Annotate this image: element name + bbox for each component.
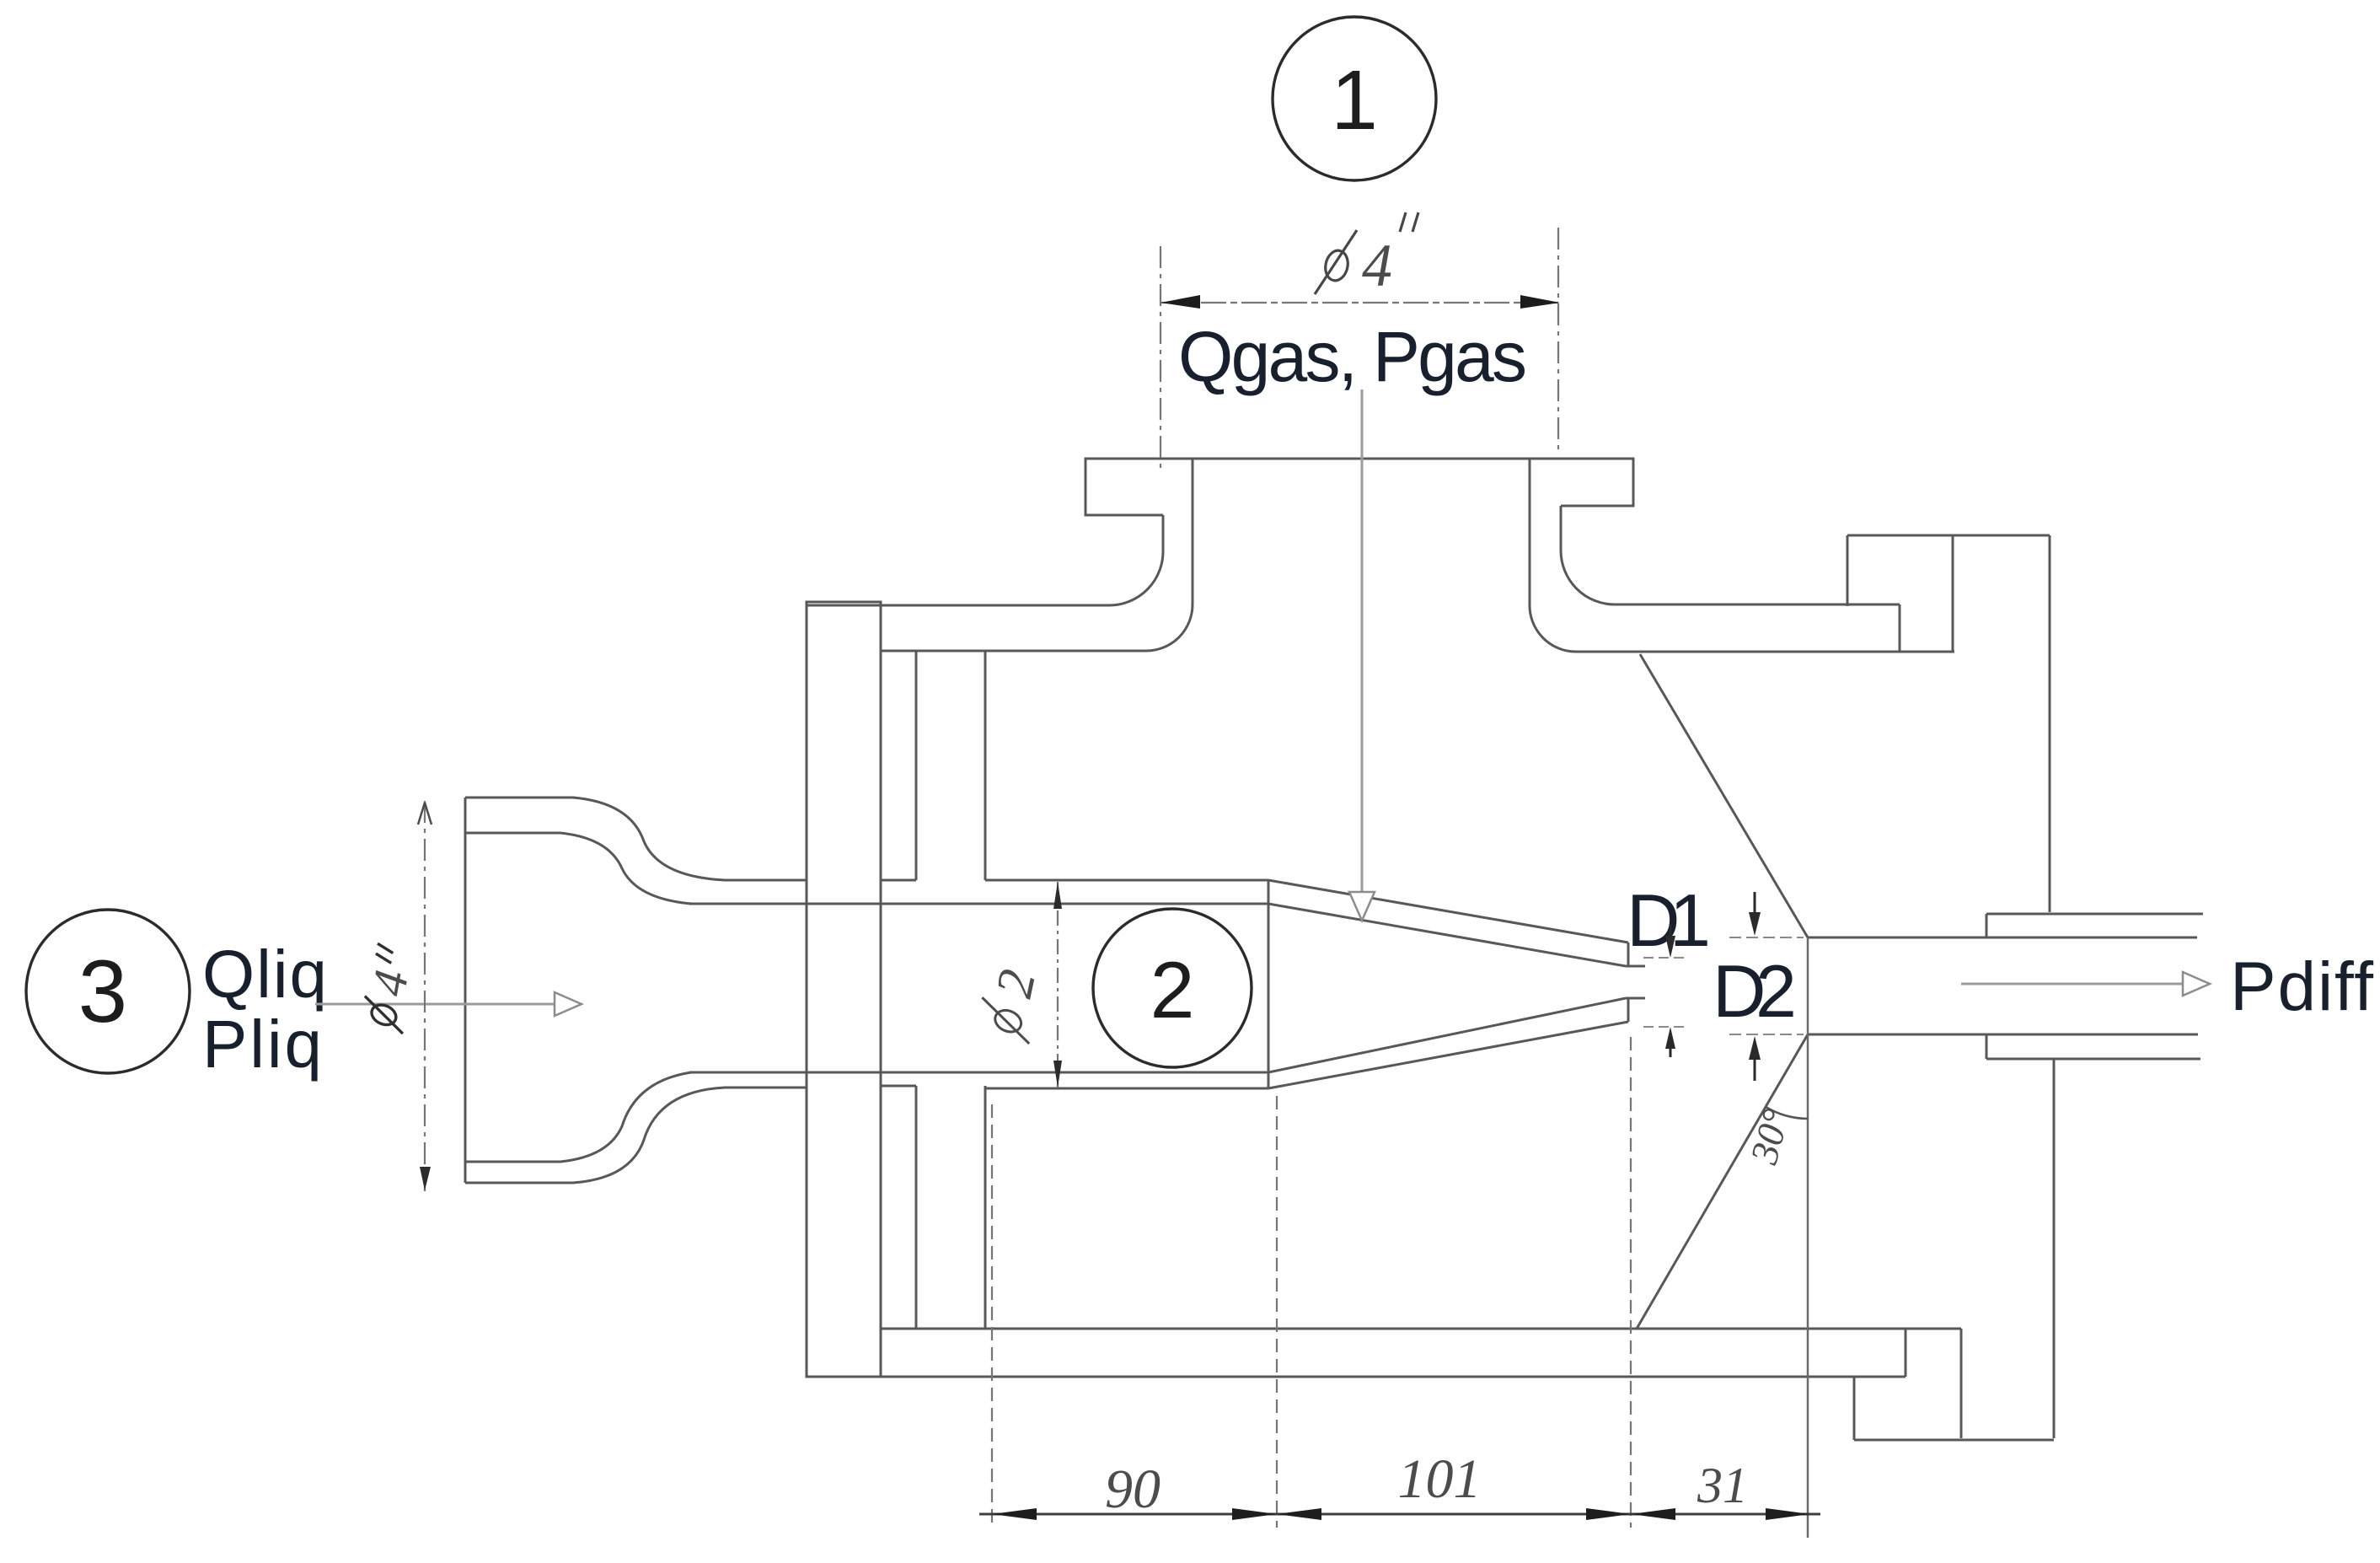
converging wall lower diagonal bbox=[1637, 1034, 1808, 1329]
gas flow arrowhead bbox=[1349, 892, 1375, 921]
bottom dimension extension line at 1515 bbox=[1276, 1096, 1278, 1528]
svg-text:101: 101 bbox=[1398, 1448, 1482, 1510]
nozzle bore bottom line bbox=[689, 1072, 1268, 1074]
gas pipe inner wall left with fillet bbox=[1146, 459, 1193, 651]
nozzle cone outer top bbox=[1268, 880, 1628, 943]
dim phi4 top left arrowhead bbox=[1161, 295, 1200, 309]
nozzle cone root face bbox=[1268, 880, 1270, 1088]
throat bore bottom line bbox=[1808, 1034, 2198, 1036]
dim D2 upper arrow bbox=[1754, 892, 1756, 927]
bottom flange ring left face below shell bbox=[1853, 1377, 1856, 1440]
bottom flange ring notch face bbox=[1960, 1329, 1963, 1438]
svg-text:Qliq: Qliq bbox=[202, 937, 327, 1012]
svg-text:Qgas, Pgas: Qgas, Pgas bbox=[1178, 317, 1527, 396]
dim phi4 left extension line bbox=[424, 801, 426, 1191]
body top wall outer line right bbox=[1615, 604, 1900, 606]
right flange ring left face above shell bbox=[1847, 535, 1849, 606]
dim phi4 top label bbox=[1315, 212, 1418, 294]
nozzle cone outer bottom bbox=[1268, 1022, 1628, 1088]
svg-text:90: 90 bbox=[1105, 1458, 1161, 1520]
reducer left face bbox=[464, 798, 467, 1183]
dim D2 ticks bbox=[1729, 937, 1804, 1034]
Pdiff arrow line bbox=[1961, 983, 2184, 986]
callout circle 2 bbox=[1093, 909, 1252, 1067]
nozzle tip face lower bbox=[1627, 998, 1630, 1022]
svg-text:4: 4 bbox=[1362, 232, 1392, 299]
svg-text:3: 3 bbox=[78, 943, 127, 1041]
dim phi4 left label bbox=[355, 942, 423, 1034]
Pdiff arrowhead bbox=[2183, 972, 2210, 996]
lower support column left wall bbox=[915, 1086, 918, 1329]
converging wall upper diagonal bbox=[1640, 654, 1808, 937]
nozzle cone inner bottom bbox=[1268, 998, 1626, 1072]
throat bore top line bbox=[1808, 937, 2197, 939]
reducer inner top contour bbox=[465, 833, 691, 904]
body shell end face bottom right bbox=[1905, 1329, 1907, 1377]
gas flow arrow line bbox=[1361, 389, 1364, 892]
nozzle pipe outer bottom line segment b bbox=[985, 1088, 1268, 1090]
gas pipe outer wall left with fillet bbox=[1109, 515, 1163, 605]
upper support column left wall bbox=[915, 651, 918, 880]
body top wall outer line left bbox=[807, 604, 1109, 607]
body shell end face top right bbox=[1899, 604, 1901, 652]
svg-text:1: 1 bbox=[1331, 53, 1378, 148]
nozzle pipe outer top line segment a bbox=[881, 879, 916, 882]
dim D1 lower arrow bbox=[1670, 1035, 1672, 1057]
outlet pipe outer bottom line bbox=[1986, 1058, 2200, 1061]
nozzle bore top line bbox=[689, 903, 1268, 905]
dim phi4 top right arrowhead bbox=[1520, 295, 1560, 309]
nozzle tip face upper bbox=[1627, 943, 1630, 966]
liquid flow arrow line bbox=[315, 1003, 556, 1006]
throat entrance face and extension line bbox=[1807, 937, 1809, 1538]
dim phi4 left top tick bbox=[418, 803, 432, 824]
gas inlet flange plate bbox=[1085, 459, 1633, 515]
body left end plate bbox=[807, 602, 881, 1377]
dim phi4 top right extension line bbox=[1557, 228, 1559, 455]
bottom flange ring bottom edge bbox=[1854, 1439, 2054, 1442]
bottom dimension extension line at 1935 bbox=[1630, 1037, 1632, 1528]
bottom dimension extension line at 1177 bbox=[991, 1104, 993, 1528]
dim D1 upper arrow bbox=[1670, 924, 1672, 949]
svg-text:31: 31 bbox=[1697, 1458, 1748, 1513]
dim D2 lower arrow bbox=[1754, 1045, 1756, 1081]
outlet pipe outer bottom end cap bbox=[1986, 1034, 1988, 1059]
nozzle tip bore bottom stub bbox=[1626, 997, 1645, 1000]
gas pipe inner wall right with fillet bbox=[1530, 459, 1576, 652]
angle 30 arc bbox=[1766, 1107, 1808, 1119]
dim phi2 bottom arrow bbox=[1053, 1061, 1062, 1088]
dim phi2 top arrow bbox=[1053, 882, 1062, 909]
body bottom wall inner floor line bbox=[881, 1328, 1961, 1330]
outlet pipe outer top end cap bbox=[1986, 914, 1988, 938]
bottom dimension arrows bbox=[992, 1508, 1810, 1520]
angle 30 label bbox=[1742, 1104, 1798, 1168]
callout circle 3 bbox=[26, 910, 190, 1073]
callout circle 1 bbox=[1273, 17, 1436, 180]
svg-text:Pliq: Pliq bbox=[202, 1007, 322, 1082]
svg-text:D2: D2 bbox=[1713, 949, 1797, 1033]
body top wall inner line right bbox=[1576, 651, 1954, 653]
gas pipe outer wall right with fillet bbox=[1561, 506, 1615, 604]
body bottom wall outer line bbox=[807, 1376, 1906, 1378]
dim phi4 left bottom arrow bbox=[420, 1167, 431, 1190]
right flange ring notch face bbox=[1952, 535, 1954, 652]
nozzle pipe outer bottom line segment a bbox=[881, 1085, 916, 1088]
outlet pipe outer top line bbox=[1986, 913, 2203, 916]
right flange ring top edge bbox=[1847, 534, 2050, 537]
svg-text:Pdiff: Pdiff bbox=[2230, 948, 2373, 1025]
dim phi4 top dimension line bbox=[1161, 302, 1558, 303]
reducer outer bottom contour bbox=[465, 1088, 807, 1183]
dim phi2 extension line bbox=[1057, 882, 1059, 1088]
dim phi4 top left extension line bbox=[1160, 246, 1161, 472]
lower support column right wall bbox=[984, 1086, 987, 1329]
liquid flow arrowhead bbox=[555, 992, 582, 1016]
nozzle tip bore top stub bbox=[1626, 965, 1645, 968]
reducer inner bottom contour bbox=[465, 1072, 691, 1162]
right flange ring outer face below outlet pipe bbox=[2053, 1060, 2056, 1438]
bottom dimension line bbox=[979, 1513, 1820, 1516]
body top wall inner line left bbox=[881, 650, 1146, 653]
reducer outer top contour bbox=[465, 798, 807, 880]
nozzle pipe outer top line segment b bbox=[985, 879, 1268, 882]
nozzle cone inner top bbox=[1268, 904, 1626, 966]
upper support column right wall bbox=[984, 651, 987, 880]
dim phi2 label bbox=[975, 964, 1048, 1045]
svg-text:2: 2 bbox=[1150, 946, 1195, 1035]
right flange ring outer face above outlet pipe bbox=[2049, 535, 2051, 912]
dim D1 ticks bbox=[1643, 958, 1689, 1027]
